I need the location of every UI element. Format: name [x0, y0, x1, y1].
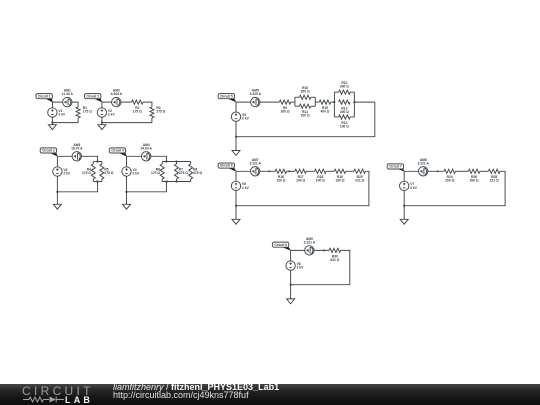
resistor R18 [315, 169, 327, 183]
wire [404, 170, 444, 172]
wire [126, 192, 128, 205]
ground [232, 151, 240, 156]
wire [190, 162, 192, 165]
svg-text:2 kV: 2 kV [242, 117, 250, 121]
ammeter AM7 [249, 158, 261, 176]
svg-text:3.221 A: 3.221 A [249, 161, 261, 165]
resistor R1 [76, 106, 92, 118]
wire [176, 162, 178, 165]
junction [101, 122, 103, 124]
svg-text:Circuit 6: Circuit 6 [220, 164, 233, 168]
wire [350, 91, 354, 93]
wire [102, 118, 152, 123]
svg-text:200 Ω: 200 Ω [470, 179, 479, 183]
wire [127, 182, 167, 192]
ammeter AM4 [140, 143, 152, 161]
resistor R26 [468, 169, 480, 183]
CircuitLab logo text CIRCUIT [22, 384, 94, 398]
wire [353, 92, 355, 117]
ground [400, 219, 408, 224]
wire [162, 181, 191, 183]
svg-text:Circuit 1: Circuit 1 [38, 94, 51, 98]
svg-text:100 Ω: 100 Ω [301, 114, 310, 118]
current arrow [323, 249, 326, 251]
wire [311, 105, 315, 107]
svg-text:100 Ω: 100 Ω [276, 179, 285, 183]
svg-text:100 Ω: 100 Ω [335, 179, 344, 183]
ground [53, 204, 61, 209]
wire [235, 137, 237, 151]
voltage source V2 [97, 108, 115, 117]
node label Circuit 5 [218, 94, 236, 103]
wire [162, 161, 191, 163]
wire [291, 249, 330, 251]
svg-text:18.70 A: 18.70 A [71, 146, 83, 150]
wire [295, 96, 299, 98]
svg-text:4.444 A: 4.444 A [111, 92, 123, 96]
junction [290, 284, 292, 286]
resistor R24 [444, 169, 456, 183]
svg-text:Circuit 3: Circuit 3 [42, 149, 55, 153]
footer bar [0, 384, 540, 405]
svg-text:300 Ω: 300 Ω [340, 85, 349, 89]
junction [176, 161, 178, 163]
wire [331, 101, 335, 103]
resistor R9 [279, 100, 291, 114]
svg-text:175 Ω: 175 Ω [83, 110, 92, 114]
svg-text:Circuit 4: Circuit 4 [111, 149, 124, 153]
wire [291, 101, 295, 103]
wire [101, 123, 103, 125]
svg-text:200 Ω: 200 Ω [445, 179, 454, 183]
junction [235, 136, 237, 138]
wire [51, 102, 53, 123]
resistor R2 [132, 100, 144, 114]
wire [93, 181, 102, 183]
resistor R28 [488, 169, 500, 183]
wire [236, 101, 279, 103]
ammeter AM5 [250, 89, 262, 107]
ammeter AM1 [62, 89, 74, 107]
svg-text:2 kV: 2 kV [58, 112, 66, 116]
svg-text:275 Ω: 275 Ω [179, 171, 188, 175]
wire [334, 116, 338, 118]
svg-text:3.221 A: 3.221 A [417, 161, 429, 165]
junction [176, 181, 178, 183]
junction [56, 191, 58, 193]
wire [143, 102, 152, 107]
CircuitLab logo text LAB [65, 395, 93, 405]
wire [235, 171, 237, 205]
wire [102, 101, 132, 103]
wire [52, 118, 78, 123]
wire [56, 156, 58, 192]
svg-text:2 kV: 2 kV [410, 186, 418, 190]
resistor R5 [100, 164, 114, 179]
svg-text:24.03 A: 24.03 A [140, 146, 152, 150]
wire [176, 179, 178, 182]
resistor R15 [319, 100, 331, 114]
resistor R13 [339, 100, 351, 114]
wire [311, 96, 315, 98]
svg-text:Circuit 7: Circuit 7 [389, 165, 402, 169]
ground [98, 125, 106, 130]
svg-text:11.43 A: 11.43 A [62, 92, 74, 96]
wire [101, 179, 103, 182]
resistor R8 [189, 164, 203, 179]
wire [52, 102, 78, 107]
wire [404, 171, 505, 205]
svg-text:100 Ω: 100 Ω [316, 179, 325, 183]
svg-text:2 kV: 2 kV [242, 186, 250, 190]
ground [287, 299, 295, 304]
junction [403, 205, 405, 207]
svg-text:Circuit 2: Circuit 2 [86, 94, 99, 98]
resistor R3 [150, 106, 166, 118]
junction [235, 205, 237, 207]
svg-text:2 kV: 2 kV [133, 171, 141, 175]
attribution line 2 [113, 390, 249, 400]
wire [334, 91, 338, 93]
wire [236, 170, 275, 172]
wire [93, 161, 102, 163]
node label Circuit 3 [40, 148, 58, 157]
junction [51, 122, 53, 124]
svg-text:221 Ω: 221 Ω [490, 179, 499, 183]
wire [290, 250, 292, 284]
wire [161, 162, 163, 165]
svg-text:175 Ω: 175 Ω [82, 171, 91, 175]
wire [57, 156, 97, 161]
wire [126, 156, 128, 192]
junction [97, 161, 99, 163]
wire [456, 170, 469, 172]
CircuitLab logo squiggle (resistor + diode) [0, 384, 110, 405]
resistor R17 [295, 169, 307, 183]
svg-text:221 Ω: 221 Ω [355, 179, 364, 183]
wire [235, 102, 237, 137]
wire [290, 285, 292, 299]
svg-text:Circuit 8: Circuit 8 [274, 243, 287, 247]
resistor R10 [299, 86, 311, 99]
node label Circuit 1 [36, 94, 53, 103]
ground [48, 125, 56, 130]
wire [346, 170, 354, 172]
wire [315, 101, 319, 103]
current arrow [269, 170, 272, 172]
ammeter AM3 [71, 143, 83, 161]
voltage source V4 [122, 167, 140, 176]
wire [101, 102, 103, 123]
svg-text:175 Ω: 175 Ω [133, 110, 142, 114]
wire [295, 105, 299, 107]
svg-text:275 Ω: 275 Ω [104, 171, 113, 175]
node label Circuit 8 [272, 242, 291, 251]
resistor R20 [354, 169, 366, 183]
wire [314, 97, 316, 106]
wire [235, 206, 237, 220]
wire [480, 170, 489, 172]
junction [353, 101, 355, 103]
svg-text:275 Ω: 275 Ω [156, 110, 165, 114]
node label Circuit 7 [387, 164, 404, 172]
resistor R14 [339, 115, 351, 129]
node label Circuit 4 [109, 148, 127, 157]
resistor R11 [299, 104, 311, 118]
wire [57, 182, 97, 192]
resistor R4 [82, 164, 95, 179]
voltage source V6 [231, 181, 249, 190]
wire [294, 97, 296, 106]
wire [236, 171, 369, 205]
resistor R7 [175, 164, 189, 179]
resistor R19 [334, 169, 346, 183]
wire [287, 170, 295, 172]
resistor R30 [329, 248, 341, 261]
wire [161, 179, 163, 182]
junction [166, 181, 168, 183]
junction [97, 181, 99, 183]
wire [92, 179, 94, 182]
svg-text:2 kV: 2 kV [297, 266, 305, 270]
svg-text:100 Ω: 100 Ω [296, 179, 305, 183]
svg-text:3.220 A: 3.220 A [250, 92, 262, 96]
ammeter AM9 [304, 237, 316, 255]
wire [127, 156, 167, 161]
junction [126, 191, 128, 193]
wire [326, 170, 334, 172]
resistor R16 [275, 169, 287, 183]
svg-text:3.221 A: 3.221 A [304, 240, 316, 244]
wire [56, 192, 58, 205]
wire [350, 116, 354, 118]
svg-text:400 Ω: 400 Ω [320, 110, 329, 114]
voltage source V5 [231, 112, 249, 121]
wire [51, 123, 53, 125]
svg-text:175 Ω: 175 Ω [151, 171, 160, 175]
wire [306, 170, 314, 172]
wire [403, 171, 405, 205]
current arrow [289, 170, 292, 172]
svg-text:2 kV: 2 kV [63, 171, 71, 175]
node label Circuit 6 [218, 163, 236, 172]
resistor R12 [339, 81, 351, 94]
wire [236, 102, 375, 137]
svg-text:100 Ω: 100 Ω [340, 125, 349, 129]
node label Circuit 2 [85, 94, 103, 103]
current arrow [437, 170, 440, 172]
junction [333, 101, 335, 103]
wire [403, 206, 405, 220]
attribution line 1 [113, 382, 279, 392]
wire [92, 162, 94, 165]
voltage source V7 [400, 181, 418, 190]
voltage source V3 [53, 167, 71, 176]
ammeter AM2 [111, 89, 123, 107]
wire [333, 92, 335, 117]
svg-text:100 Ω: 100 Ω [281, 110, 290, 114]
wire [291, 250, 350, 284]
ground [232, 219, 240, 224]
ground [123, 204, 131, 209]
resistor R6 [151, 164, 164, 179]
svg-text:Circuit 5: Circuit 5 [220, 94, 233, 98]
svg-text:2 kV: 2 kV [108, 112, 116, 116]
svg-text:621 Ω: 621 Ω [330, 258, 339, 262]
svg-text:200 Ω: 200 Ω [340, 110, 349, 114]
voltage source V1 [48, 108, 66, 117]
ammeter AM8 [417, 158, 429, 176]
wire [190, 179, 192, 182]
voltage source V8 [286, 261, 304, 270]
wire [101, 162, 103, 165]
junction [166, 161, 168, 163]
svg-text:375 Ω: 375 Ω [193, 171, 202, 175]
svg-text:200 Ω: 200 Ω [301, 90, 310, 94]
